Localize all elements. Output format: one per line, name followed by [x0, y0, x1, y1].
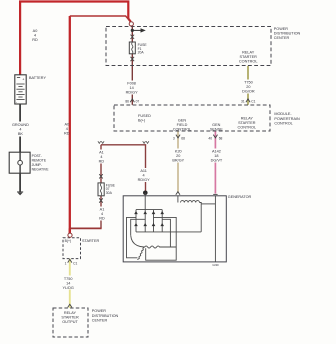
svg-text:RELAY: RELAY — [241, 116, 254, 120]
svg-text:86: 86 — [125, 99, 129, 103]
svg-text:OUTPUT: OUTPUT — [62, 320, 78, 324]
svg-text:20A: 20A — [138, 51, 145, 55]
svg-text:A1: A1 — [99, 151, 104, 155]
svg-text:68: 68 — [219, 136, 223, 140]
svg-text:RD/GY: RD/GY — [138, 178, 150, 182]
svg-text:POWERTRAIN: POWERTRAIN — [274, 117, 300, 121]
svg-text:BK: BK — [18, 132, 24, 136]
svg-text:07: 07 — [136, 99, 140, 103]
svg-text:POWER: POWER — [92, 309, 106, 313]
svg-text:A11: A11 — [140, 169, 146, 173]
svg-text:4: 4 — [101, 212, 103, 216]
svg-text:20: 20 — [176, 154, 180, 158]
svg-text:GEN: GEN — [212, 123, 220, 127]
svg-text:B(+): B(+) — [138, 118, 146, 122]
svg-text:RD/GY: RD/GY — [126, 91, 138, 95]
svg-text:YL/DG: YL/DG — [62, 286, 73, 290]
svg-text:4: 4 — [19, 128, 21, 132]
svg-text:4: 4 — [66, 127, 68, 131]
svg-text:GEN: GEN — [178, 118, 186, 122]
svg-text:GROUND: GROUND — [12, 123, 29, 127]
svg-text:DG/OR: DG/OR — [242, 90, 255, 94]
svg-text:4: 4 — [100, 155, 102, 159]
svg-text:BATTERY: BATTERY — [29, 76, 46, 80]
svg-text:14: 14 — [129, 86, 133, 90]
svg-text:DISTRIBUTION: DISTRIBUTION — [92, 314, 119, 318]
svg-text:RD: RD — [99, 160, 105, 164]
svg-text:C1: C1 — [251, 99, 255, 103]
svg-text:14: 14 — [66, 281, 70, 285]
svg-text:JUMP-: JUMP- — [32, 163, 42, 167]
svg-text:RD: RD — [64, 131, 70, 135]
svg-text:18: 18 — [214, 154, 218, 158]
svg-text:30A: 30A — [106, 191, 113, 195]
svg-text:A142: A142 — [212, 150, 221, 154]
svg-text:F008: F008 — [127, 82, 136, 86]
svg-text:RELAY: RELAY — [242, 50, 255, 54]
svg-text:4: 4 — [143, 174, 145, 178]
svg-text:A0: A0 — [33, 29, 38, 33]
svg-text:SENSE: SENSE — [210, 128, 223, 132]
svg-text:31: 31 — [241, 99, 245, 103]
svg-text:STARTER: STARTER — [82, 239, 99, 243]
svg-text:DISTRIBUTION: DISTRIBUTION — [274, 32, 301, 36]
svg-text:DG/VT: DG/VT — [211, 159, 223, 163]
svg-text:CENTER: CENTER — [92, 318, 108, 322]
svg-text:FIELD: FIELD — [177, 123, 188, 127]
svg-text:40: 40 — [208, 136, 212, 140]
svg-text:68: 68 — [181, 136, 185, 140]
svg-text:NEGATIVE: NEGATIVE — [32, 167, 50, 171]
svg-text:CONTROL: CONTROL — [238, 125, 257, 129]
svg-text:C1: C1 — [73, 262, 77, 266]
svg-text:1: 1 — [65, 262, 67, 266]
svg-text:RELAY: RELAY — [64, 311, 77, 315]
svg-text:20: 20 — [246, 85, 250, 89]
svg-text:CENTER: CENTER — [274, 36, 290, 40]
svg-text:RD: RD — [99, 217, 105, 221]
svg-text:T750: T750 — [244, 81, 253, 85]
svg-text:A0: A0 — [64, 122, 69, 126]
svg-text:A1: A1 — [100, 208, 105, 212]
svg-text:POST-: POST- — [32, 154, 42, 158]
svg-text:MODULE-: MODULE- — [274, 112, 292, 116]
svg-text:K20: K20 — [175, 150, 182, 154]
svg-text:REMOTE: REMOTE — [32, 158, 47, 162]
svg-text:CONTROL: CONTROL — [274, 121, 292, 125]
svg-text:FUSED: FUSED — [138, 114, 151, 118]
svg-text:POWER: POWER — [274, 27, 288, 31]
svg-text:+: + — [22, 78, 24, 82]
svg-text:B(+): B(+) — [65, 239, 72, 243]
svg-text:T750: T750 — [64, 277, 73, 281]
svg-text:CONTROL: CONTROL — [173, 127, 192, 131]
svg-text:STARTER: STARTER — [238, 121, 256, 125]
svg-text:STARTER: STARTER — [61, 316, 79, 320]
svg-text:GND: GND — [212, 263, 218, 267]
svg-text:CONTROL: CONTROL — [239, 59, 258, 63]
svg-text:BR/GY: BR/GY — [172, 159, 184, 163]
svg-text:4: 4 — [34, 34, 36, 38]
svg-text:STARTER: STARTER — [240, 55, 258, 59]
svg-text:RD: RD — [32, 38, 38, 42]
svg-text:3: 3 — [173, 136, 175, 140]
svg-text:GENERATOR: GENERATOR — [228, 195, 252, 199]
